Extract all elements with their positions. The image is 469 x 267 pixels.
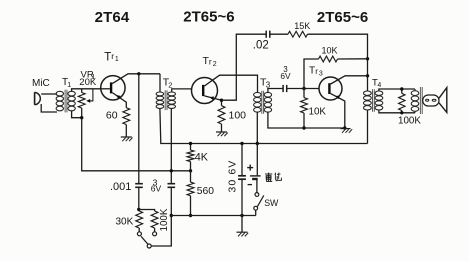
svg-text:4K: 4K bbox=[195, 152, 209, 164]
svg-text:2T65~6: 2T65~6 bbox=[183, 9, 234, 26]
VR1 wiper arm bbox=[89, 89, 93, 101]
wire T2 primary top bbox=[159, 74, 161, 92]
svg-text:60: 60 bbox=[106, 110, 118, 122]
ground (Tr1 emitter) bbox=[121, 136, 132, 138]
wire T1 secondary top to Tr1 base bbox=[72, 89, 101, 91]
transformer T2 secondary winding bbox=[168, 92, 176, 96]
node supply rail / 30uF cap bbox=[240, 142, 243, 145]
wire T2 primary bottom to supply rail bbox=[160, 109, 368, 144]
svg-text:10K: 10K bbox=[309, 107, 327, 118]
svg-text:4: 4 bbox=[377, 82, 381, 89]
wire cap to Tr3 base bbox=[287, 88, 320, 90]
transformer T1 primary winding bbox=[56, 91, 63, 96]
svg-text:T: T bbox=[309, 66, 315, 77]
svg-text:r: r bbox=[209, 57, 212, 67]
svg-text:560: 560 bbox=[197, 186, 214, 197]
Tr2 emitter wire bbox=[204, 96, 221, 106]
wire T4 primary bottom to supply rail bbox=[367, 110, 369, 143]
transformer T4 secondary winding bbox=[375, 91, 383, 95]
resistor 30K bbox=[136, 211, 143, 228]
speaker voice coil bbox=[411, 91, 419, 96]
contact 100K bbox=[153, 232, 157, 236]
wire mic to T1 bottom bbox=[41, 104, 57, 112]
node emitter/ground junction bbox=[343, 126, 346, 129]
svg-text:.02: .02 bbox=[253, 40, 269, 52]
wire T3 secondary top to coupling cap bbox=[268, 89, 283, 93]
svg-text:1: 1 bbox=[115, 56, 119, 63]
svg-text:6V: 6V bbox=[280, 71, 291, 81]
Tr3 collector wire bbox=[331, 76, 368, 84]
svg-text:2: 2 bbox=[213, 61, 217, 68]
svg-text:15K: 15K bbox=[294, 21, 310, 31]
resistor 10K (base-collector) bbox=[304, 59, 319, 89]
microphone MIC bbox=[34, 92, 36, 105]
ground (battery circuit) bbox=[237, 231, 248, 233]
resistor 10K (base-ground) bbox=[301, 98, 308, 113]
svg-text:20K: 20K bbox=[79, 77, 97, 88]
node supply rail / battery bbox=[256, 142, 259, 145]
capacitor 3/6V (bypass) bbox=[168, 183, 176, 185]
wire to 100K branch bbox=[139, 210, 155, 212]
wire selector common to negative bus bbox=[151, 216, 171, 247]
transformer T1 secondary winding bbox=[68, 91, 75, 96]
Tr1 collector wire to T2 bbox=[112, 74, 160, 84]
node supply rail / 4K bbox=[189, 142, 192, 145]
svg-text:100: 100 bbox=[229, 110, 247, 122]
contact 30K bbox=[137, 232, 141, 236]
Tr1 emitter wire bbox=[112, 93, 126, 108]
capacitor 3/6V (coupling) bbox=[282, 85, 284, 92]
transformer T4 core bbox=[372, 89, 374, 112]
svg-text:.001: .001 bbox=[110, 181, 131, 193]
wire T3 primary bottom to supply bbox=[256, 112, 258, 143]
Tr2 collector wire to T3 bbox=[204, 75, 257, 92]
svg-text:3: 3 bbox=[319, 70, 323, 77]
transistor Tr2 bbox=[192, 78, 218, 104]
wire T1 secondary bottom bbox=[72, 111, 82, 118]
capacitor .001 bbox=[135, 183, 143, 185]
wire T2 secondary top to Tr2 base bbox=[172, 89, 192, 92]
ground (Tr2 emitter) bbox=[216, 131, 227, 133]
Tr3 emitter wire to ground bbox=[331, 94, 345, 128]
wire 15K to output node bbox=[308, 34, 368, 90]
wire negative bus bbox=[171, 215, 256, 217]
svg-text:1: 1 bbox=[67, 82, 71, 89]
node bias rail / T2 secondary bottom bbox=[170, 169, 173, 172]
capacitor .02 bbox=[265, 31, 267, 38]
node negative bus left bbox=[170, 214, 173, 217]
node selector junction bbox=[137, 208, 140, 211]
wire T4 secondary top bbox=[379, 89, 415, 91]
label battery kanji bbox=[265, 173, 272, 182]
resistor 15K bbox=[288, 31, 308, 37]
svg-text:6V: 6V bbox=[151, 184, 162, 194]
wire Tr1 collector down to .001 bbox=[138, 74, 140, 184]
transformer T3 primary winding bbox=[254, 92, 261, 97]
svg-text:r: r bbox=[315, 67, 318, 76]
svg-text:2T65~6: 2T65~6 bbox=[317, 9, 368, 26]
transformer T1 core bbox=[64, 90, 66, 113]
node VR1/T1 bottom junction bbox=[80, 116, 83, 119]
wire T2 secondary bottom down bbox=[170, 109, 172, 184]
wire to ground bbox=[241, 216, 243, 233]
resistor 100 bbox=[218, 106, 225, 124]
transistor Tr3 bbox=[319, 77, 342, 100]
capacitor 30/6V electrolytic bbox=[241, 144, 243, 176]
wire T4 secondary bottom bbox=[379, 110, 415, 113]
speaker cone bbox=[439, 88, 447, 113]
svg-text:30 6V: 30 6V bbox=[227, 160, 238, 193]
speaker magnet capsule bbox=[423, 95, 439, 106]
svg-text:MiC: MiC bbox=[32, 78, 50, 89]
svg-text:2T64: 2T64 bbox=[95, 9, 130, 26]
svg-text:T: T bbox=[104, 51, 111, 63]
svg-text:SW: SW bbox=[264, 198, 279, 208]
node bias rail / 4K-560 junction bbox=[189, 169, 192, 172]
transformer T2 core bbox=[164, 90, 166, 110]
node Tr3 collector junction bbox=[366, 74, 369, 77]
svg-text:30K: 30K bbox=[116, 217, 134, 228]
switch lever (selector) bbox=[141, 236, 148, 244]
resistor 560 bbox=[190, 171, 192, 182]
node Tr1 collector junction bbox=[137, 72, 140, 75]
transistor Tr1 bbox=[101, 76, 125, 100]
transformer T3 secondary winding bbox=[264, 92, 271, 97]
node Tr2 emitter junction bbox=[220, 99, 223, 102]
wire .02 to 15K bbox=[270, 33, 288, 35]
resistor 4K bbox=[190, 144, 192, 151]
node feedback/10K junction bbox=[366, 57, 369, 60]
Tr1 base wire bbox=[101, 88, 110, 90]
switch SW bbox=[256, 179, 258, 193]
svg-text:100K: 100K bbox=[398, 116, 421, 127]
battery 電池 bbox=[256, 144, 258, 176]
ground (output stage) bbox=[341, 128, 351, 130]
resistor 100K (selector) bbox=[151, 211, 158, 228]
wire T3 secondary bottom to ground rail bbox=[268, 112, 345, 128]
transformer T3 core bbox=[261, 91, 263, 114]
node negative bus / cap bbox=[240, 214, 243, 217]
transformer T4 primary winding bbox=[364, 91, 372, 95]
wire VR1 bottom to bias rail bbox=[82, 118, 191, 171]
node 10K bottom junction bbox=[302, 126, 305, 129]
potentiometer VR1 20K bbox=[81, 89, 83, 93]
speaker core lines bbox=[419, 87, 421, 114]
svg-text:10K: 10K bbox=[322, 46, 338, 56]
svg-text:100K: 100K bbox=[159, 208, 170, 231]
resistor 100K bbox=[401, 89, 403, 93]
node Tr3 base junction bbox=[302, 87, 305, 90]
node negative bus / 560 bbox=[189, 214, 192, 217]
wire feedback from Tr2 emitter up bbox=[222, 34, 267, 100]
resistor 60 bbox=[123, 108, 130, 125]
wire mic to T1 top bbox=[41, 93, 57, 95]
svg-text:2: 2 bbox=[168, 80, 172, 89]
transformer T2 primary winding bbox=[156, 92, 164, 96]
svg-text:r: r bbox=[111, 51, 114, 61]
